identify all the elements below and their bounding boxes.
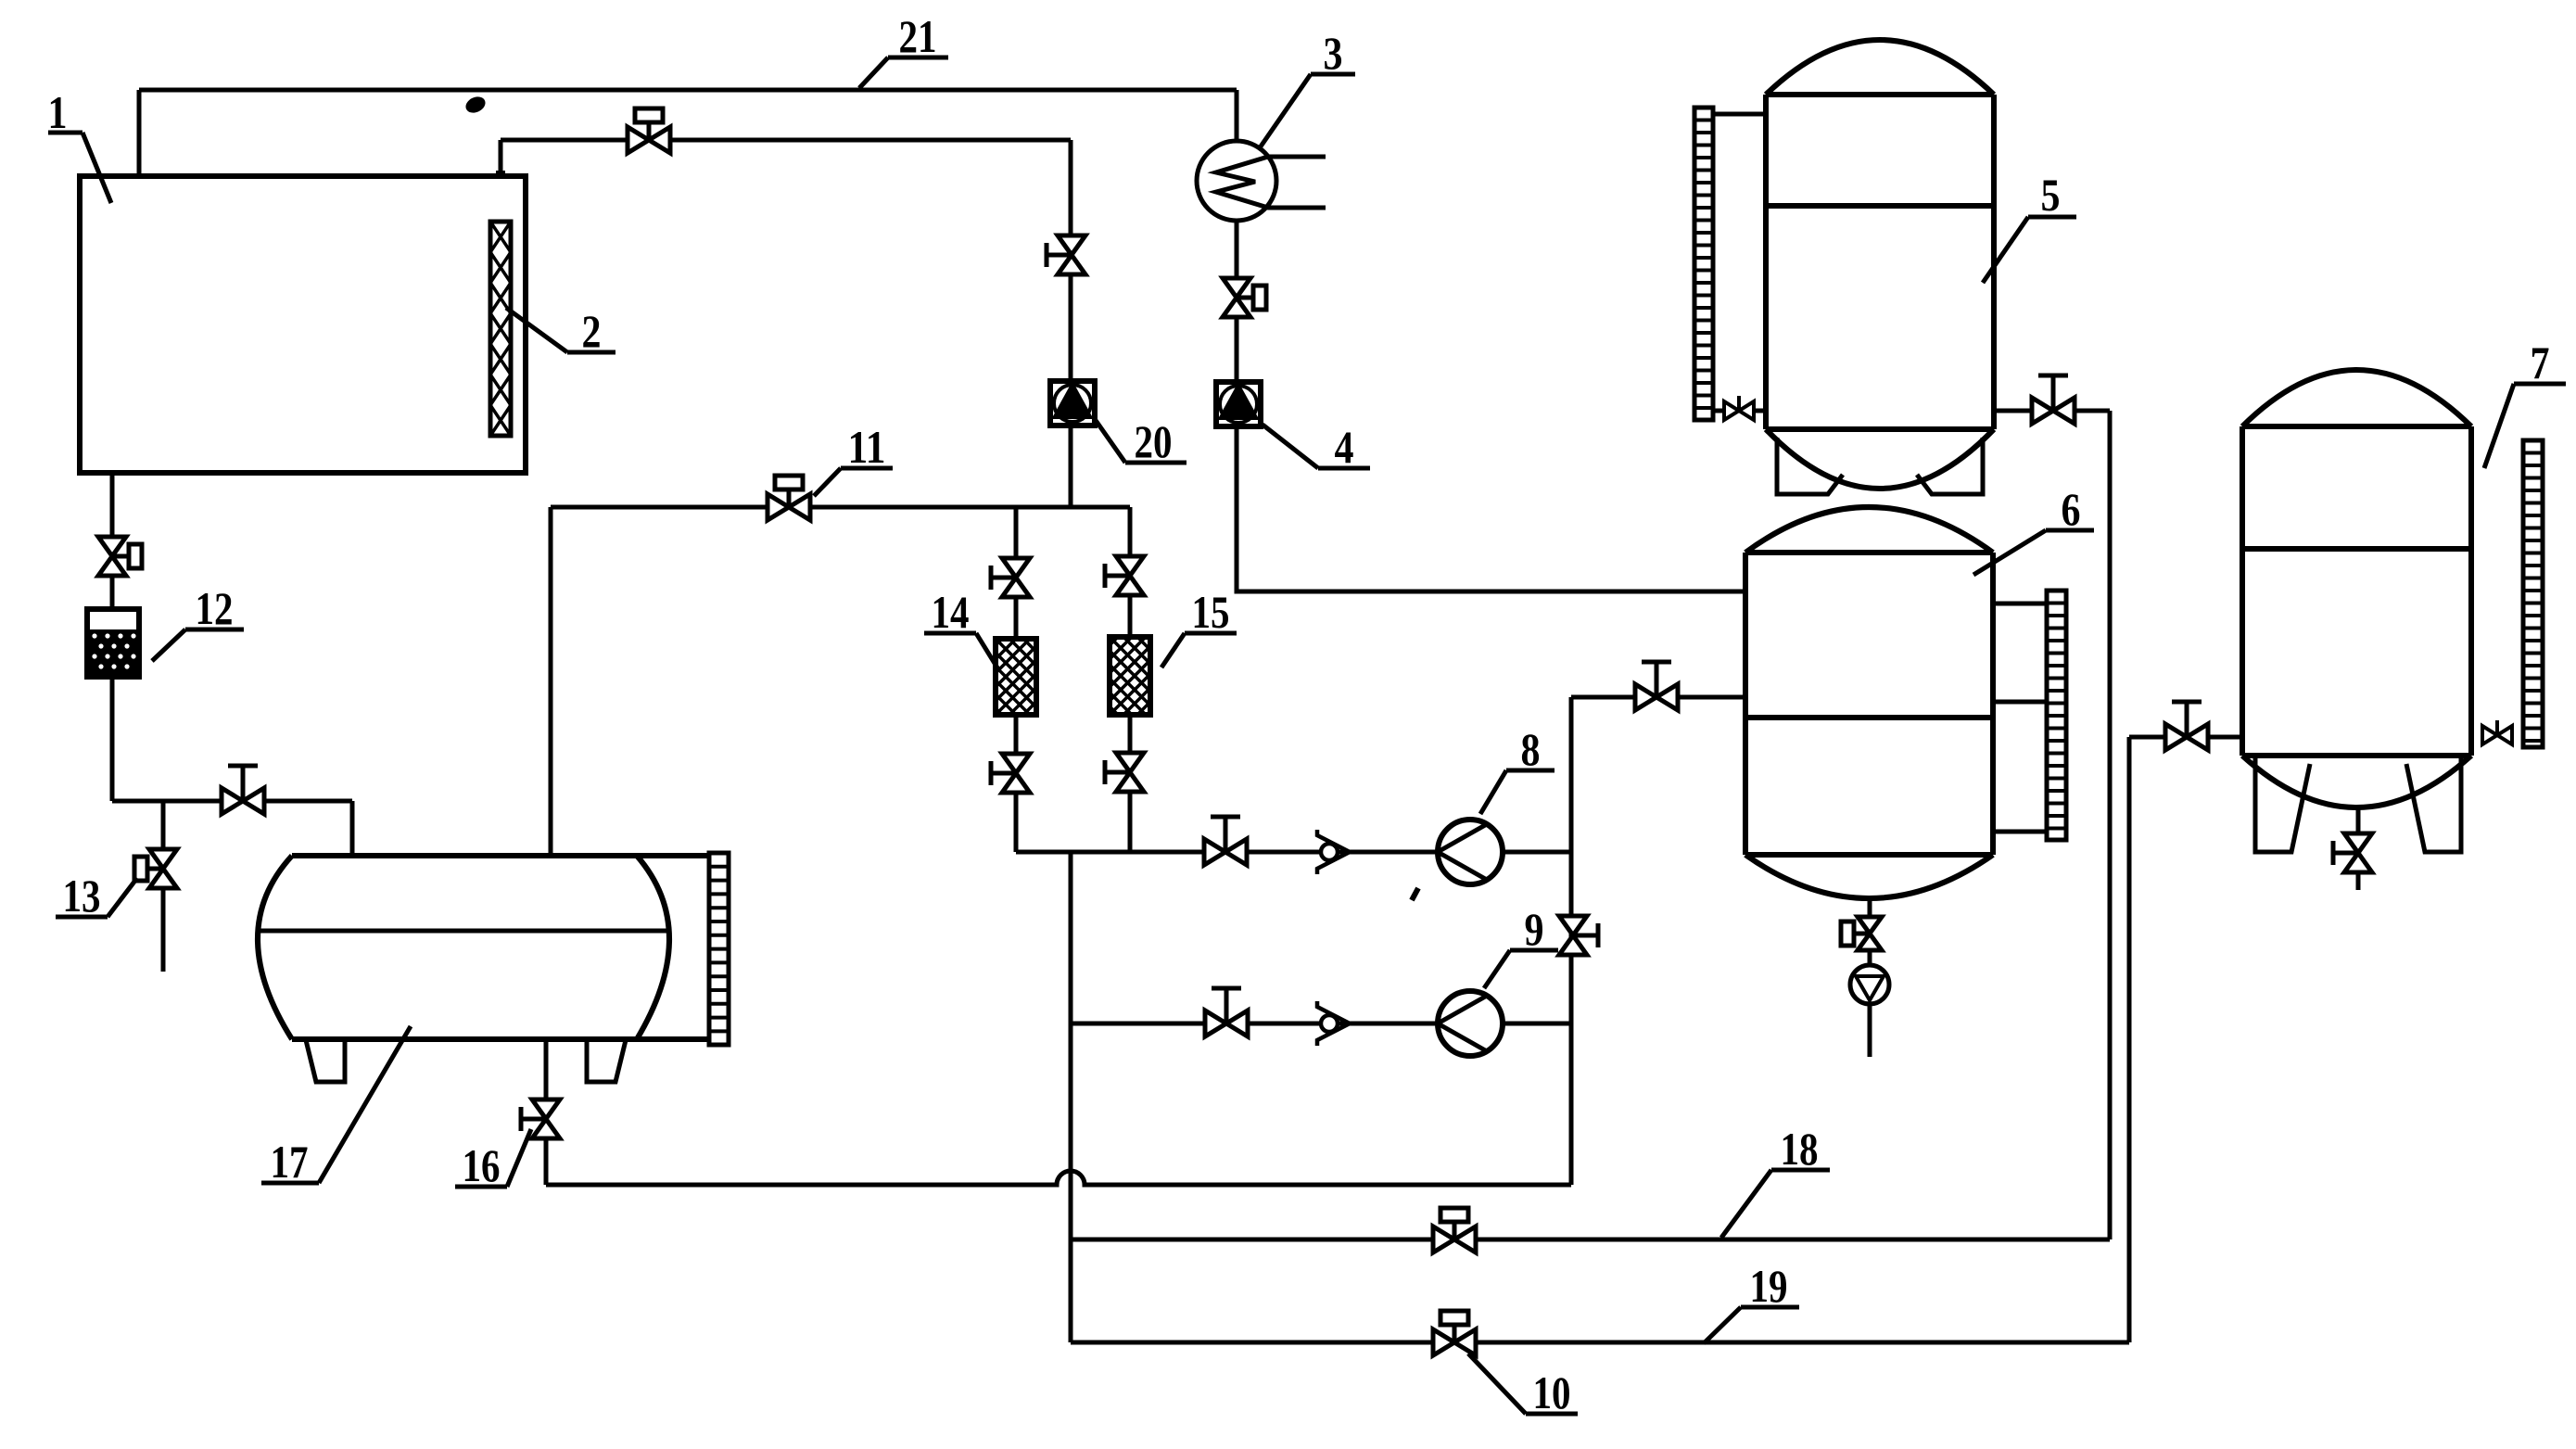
- wire: filter 14 branch: [1014, 507, 1019, 852]
- gauge isolation valve (tank 5): [1724, 396, 1754, 420]
- valve on pump 8 suction: [1204, 817, 1247, 865]
- tank 17 end gauge column: [709, 853, 729, 1045]
- svg-text:9: 9: [1525, 903, 1544, 955]
- wire: dip tube from y=151 into filter 2: [499, 140, 503, 222]
- drain pump under tank 6: [1850, 965, 1889, 1004]
- heat exchanger 3 (circle with coil): [1197, 141, 1326, 221]
- label 19: [1704, 1260, 1799, 1343]
- tank 6 (vertical mixing vessel): [1745, 507, 1993, 898]
- label 14: [924, 586, 998, 669]
- isolation valve above filter 15: [1105, 556, 1144, 595]
- wire: riser from tank 1 top to line 21: [137, 90, 142, 176]
- wire: vertical branch x=1155 down to header: [1069, 140, 1073, 507]
- svg-text:11: 11: [848, 421, 886, 473]
- valve 10 on line 19: [1433, 1311, 1476, 1355]
- wire: pump discharge manifold x=1695: [1569, 697, 1574, 1185]
- svg-text:13: 13: [63, 870, 101, 922]
- tank 7 right foot: [2406, 758, 2461, 852]
- svg-text:18: 18: [1781, 1123, 1819, 1175]
- svg-text:21: 21: [899, 10, 937, 62]
- wire: manifold to tank 6 lower-left nozzle: [1571, 695, 1745, 700]
- isolation valve below filter 15: [1105, 753, 1144, 792]
- wire: tank 6 bottom drain: [1868, 898, 1872, 1057]
- wire: pump 8 suction line y=919: [1016, 850, 1571, 855]
- wire: bottom return line y=1282 with hop over x=1155: [546, 1171, 1571, 1185]
- wire: filter 15 branch: [1128, 507, 1133, 852]
- tank 7 level gauge column: [2523, 440, 2543, 747]
- wire: drain run to tank 17 inlet: [112, 799, 352, 804]
- node: junction dot on tank 1 top edge: [496, 171, 505, 182]
- tank 1 (open rectangular vessel): [80, 176, 526, 473]
- label 8: [1480, 723, 1554, 814]
- label 6: [1973, 483, 2094, 575]
- check valve before pump 8: [1317, 830, 1350, 874]
- valve on pump 9 suction: [1205, 988, 1248, 1036]
- label 1: [48, 86, 112, 203]
- tank 7 (vertical product vessel): [2242, 370, 2471, 807]
- svg-text:7: 7: [2531, 337, 2550, 388]
- label 15: [1161, 586, 1237, 667]
- label 12: [152, 582, 244, 661]
- tank 17 (horizontal storage tank): [258, 856, 709, 1039]
- wire: drop from header to tank 17 top: [549, 507, 553, 856]
- svg-text:10: 10: [1533, 1366, 1571, 1418]
- valve on discharge manifold: [1559, 916, 1598, 955]
- valve at tank 5 outlet: [2032, 375, 2075, 424]
- device 20 (solenoid valve: square, circle, filled triangle): [1050, 381, 1095, 426]
- wire: vertical x=1155 from pump header down to lines 18/19: [1069, 852, 1073, 1342]
- wire: tank 17 drain through valve 16: [544, 1039, 549, 1185]
- svg-text:5: 5: [2041, 169, 2061, 221]
- wire: header line at y=543 (line 11): [551, 505, 1130, 510]
- tank 7 drain valve: [2333, 833, 2372, 872]
- svg-text:19: 19: [1750, 1260, 1788, 1312]
- valve 16 (tank 17 drain valve): [521, 1099, 560, 1138]
- label 2: [506, 305, 615, 357]
- wire: tank 7 left inlet: [2129, 735, 2242, 740]
- svg-text:1: 1: [48, 86, 68, 138]
- svg-text:14: 14: [932, 586, 970, 638]
- pump 9: [1438, 991, 1503, 1056]
- wire: tank 1 vapor line at y=151 to solenoid branch: [501, 138, 1071, 143]
- check valve before pump 9: [1317, 1001, 1350, 1046]
- tank 7 left foot: [2255, 758, 2310, 852]
- svg-text:17: 17: [271, 1136, 309, 1188]
- label 17: [261, 1026, 411, 1188]
- filter 12 (sight filter with packing): [87, 609, 139, 677]
- tank 17 left foot: [306, 1040, 345, 1082]
- svg-text:6: 6: [2062, 483, 2081, 535]
- svg-text:3: 3: [1324, 27, 1343, 79]
- svg-text:8: 8: [1521, 723, 1541, 775]
- tank 6 heater column: [2047, 591, 2066, 840]
- wire: down-leg from line 21 into heat exchanger 3: [1235, 90, 1239, 141]
- wire: line 18: [1071, 1238, 2110, 1242]
- label 18: [1721, 1123, 1830, 1238]
- tank 17 right foot: [587, 1040, 626, 1082]
- wire: tank 7 bottom drain: [2356, 807, 2361, 890]
- svg-text:4: 4: [1335, 421, 1354, 473]
- wire: gauge top connector: [1713, 112, 1766, 117]
- valve on line 18: [1433, 1208, 1476, 1252]
- label 5: [1983, 169, 2076, 283]
- wire: tank 6 heater connectors: [1993, 604, 2047, 832]
- wire: riser x=2297 from line 19 to tank 7 inlet: [2127, 737, 2132, 1342]
- label 4: [1263, 421, 1370, 473]
- valve under tank 1 (with flag handle): [98, 537, 142, 576]
- valve on x=1155 riser (angle valve): [1047, 235, 1085, 274]
- wire: line 19: [1071, 1341, 2129, 1345]
- svg-text:12: 12: [196, 582, 234, 634]
- tank 5 (vertical buffer vessel): [1766, 40, 1994, 489]
- label 16: [455, 1129, 531, 1191]
- valve below heat exchanger 3 (hand valve with flag): [1223, 278, 1266, 317]
- small tick near pump 8 (scan artifact): [1412, 888, 1418, 900]
- wire: drop into tank 17 top: [350, 801, 355, 856]
- tank 5 left foot: [1777, 438, 1843, 494]
- device 4 (solenoid valve: square, circle, filled triangle): [1216, 382, 1261, 426]
- label 3: [1261, 27, 1355, 146]
- label 20: [1095, 415, 1186, 467]
- label 10: [1468, 1354, 1578, 1418]
- valve 13 (drain valve with flag): [134, 849, 177, 888]
- isolation valve above filter 14: [991, 558, 1030, 597]
- wire: gauge bottom connector: [1713, 409, 1766, 413]
- valve 11 on header: [768, 476, 810, 520]
- wire: overhead line 21 from tank 1 to heat exchanger 3: [139, 88, 1237, 93]
- label 13: [56, 870, 137, 922]
- wire: from heat exchanger 3 down through valve and device 4 to tank 6 upper nozzle: [1237, 221, 1745, 591]
- wire: tank 1 drain through valve and filter 12: [110, 473, 115, 801]
- valve at tank 7 inlet: [2165, 702, 2208, 750]
- wire: tank 5 right outlet: [1994, 409, 2110, 413]
- svg-text:15: 15: [1192, 586, 1230, 638]
- filter 14 (crosshatched dryer): [912, 639, 1183, 715]
- svg-text:16: 16: [463, 1139, 501, 1191]
- tank 6 drain valve (with flag): [1841, 917, 1882, 950]
- pump 8: [1438, 820, 1503, 884]
- svg-text:20: 20: [1135, 415, 1173, 467]
- label 9: [1484, 903, 1558, 988]
- tank 5 level gauge column: [1694, 108, 1713, 420]
- label 11: [814, 421, 893, 496]
- wire: pump 9 suction line y=1104: [1071, 1022, 1571, 1026]
- valve at tank 6 lower-left nozzle: [1635, 662, 1678, 710]
- wire: riser x=2276 from line 18 to tank 5 outlet: [2108, 411, 2113, 1239]
- wire: valve 13 blow-down branch: [161, 801, 166, 972]
- label 21: [859, 10, 948, 88]
- isolation valve below filter 14: [991, 754, 1030, 793]
- filter 15 (crosshatched dryer): [1026, 637, 1299, 715]
- filter 2 (lattice cartridge inside tank 1): [490, 222, 511, 436]
- valve on run to tank 17: [222, 766, 264, 814]
- gauge isolation valve (tank 7): [2482, 720, 2512, 744]
- tank 5 right foot: [1917, 438, 1983, 494]
- valve on tank1 vapor line: [628, 108, 670, 153]
- ink blob on line 21 (scan artifact): [463, 94, 489, 116]
- svg-text:2: 2: [582, 305, 602, 357]
- label 7: [2484, 337, 2566, 468]
